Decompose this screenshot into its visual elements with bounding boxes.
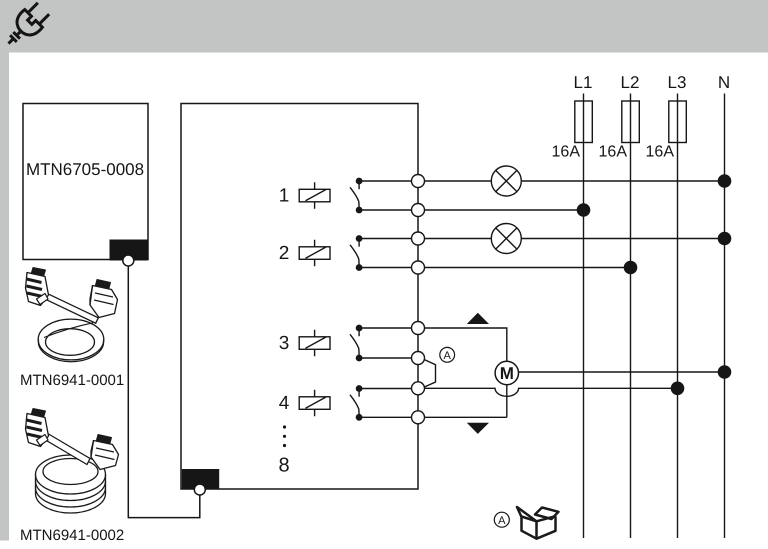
cable2 left connector — [26, 409, 49, 447]
wire contact3 top to terminal — [360, 327, 419, 329]
motor M — [495, 361, 518, 384]
wire contact2 top to terminal — [360, 238, 419, 240]
svg-text:8: 8 — [278, 455, 289, 477]
down arrow (blind down) — [467, 423, 489, 434]
cable1 left connector — [26, 268, 49, 306]
lamp E1 — [491, 166, 521, 196]
wire contact4 top to terminal — [360, 388, 419, 390]
power supply box MTN6705-0008 — [23, 104, 148, 260]
fuse F2 — [622, 101, 640, 143]
svg-text:L2: L2 — [621, 73, 640, 92]
wire contact3 bottom to terminal — [360, 357, 419, 359]
switch contact S4 — [350, 386, 362, 420]
wire motor to N — [519, 371, 725, 373]
fuse F3 — [669, 101, 687, 143]
cable MTN6941-0002 coil — [36, 455, 106, 513]
wire terminal7 to L3 with hop — [418, 388, 678, 396]
junction dot row2-L1 — [577, 203, 591, 217]
wire motor top from terminal5 — [418, 328, 507, 361]
ellipsis channels 5..7 — [283, 425, 286, 447]
wire contact1 bottom to terminal — [360, 209, 419, 211]
junction dot row3-N — [718, 232, 732, 246]
terminal node t7 — [412, 382, 425, 395]
junction dot motor-L3 — [671, 382, 685, 396]
junction dot motor-N — [718, 365, 732, 379]
carton icon — [517, 507, 559, 539]
wire row2 to L1 — [418, 209, 584, 211]
cable2 cord segment — [43, 433, 90, 465]
svg-text:MTN6941-0002: MTN6941-0002 — [20, 527, 124, 544]
svg-text:16A: 16A — [552, 144, 581, 161]
svg-text:L1: L1 — [574, 73, 593, 92]
terminal node t1 — [412, 175, 425, 188]
left grey margin strip — [0, 53, 9, 541]
wire motor bottom lead — [506, 385, 508, 418]
svg-text:M: M — [500, 364, 514, 383]
wire row1 to N — [418, 180, 725, 182]
svg-text:16A: 16A — [599, 144, 628, 161]
connector block on power supply — [110, 240, 149, 261]
wire contact4 bottom to terminal — [360, 416, 419, 418]
wire motor bottom from terminal8 — [418, 416, 507, 418]
relay coil K4 — [299, 390, 330, 417]
cable2 right connector — [91, 435, 119, 470]
svg-text:L3: L3 — [668, 73, 687, 92]
line L2 — [630, 94, 632, 539]
terminal node t5 — [412, 322, 425, 335]
svg-text:MTN6705-0008: MTN6705-0008 — [26, 160, 144, 179]
terminal node t3 — [412, 232, 425, 245]
line L3 — [677, 94, 679, 539]
junction dot row1-N — [718, 174, 732, 188]
terminal node t2 — [412, 204, 425, 217]
relay coil K2 — [299, 240, 330, 266]
svg-text:N: N — [718, 73, 730, 92]
svg-text:4: 4 — [279, 393, 290, 414]
line L1 — [583, 94, 585, 539]
wire row3 to N — [418, 238, 725, 240]
svg-text:A: A — [498, 515, 506, 527]
cable1 cord segment — [43, 293, 98, 323]
svg-text:3: 3 — [279, 333, 290, 354]
svg-text:16A: 16A — [646, 144, 675, 161]
svg-text:MTN6941-0001: MTN6941-0001 — [20, 372, 124, 389]
terminal node t6 — [412, 352, 425, 365]
fuse F1 — [575, 101, 593, 143]
connector block on actuator — [182, 469, 219, 489]
switch contact S3 — [350, 325, 362, 360]
actuator box — [181, 104, 418, 490]
wire contact2 bottom to terminal — [360, 267, 419, 269]
junction dot row4-L2 — [624, 261, 638, 275]
relay coil K3 — [299, 330, 330, 357]
lamp E2 — [491, 224, 521, 254]
cable1 right connector — [90, 280, 118, 318]
cable MTN6941-0001 coil — [38, 319, 104, 362]
up arrow (blind up) — [467, 313, 489, 324]
wire contact1 top to terminal — [360, 180, 419, 182]
line N — [724, 94, 726, 539]
switch contact S2 — [350, 236, 362, 270]
svg-text:1: 1 — [279, 186, 290, 207]
bracket joining terminals 6 and 7 — [423, 359, 436, 388]
port node on power supply connector — [123, 255, 134, 266]
switch contact S1 — [350, 178, 362, 212]
label A (circled) at carton — [494, 512, 509, 527]
wire from power supply to actuator — [128, 263, 200, 518]
plug icon (header) — [1, 1, 52, 52]
relay coil K1 — [299, 182, 330, 209]
label A (circled) at bracket — [440, 347, 455, 362]
svg-text:A: A — [444, 350, 452, 362]
terminal node t8 — [412, 411, 425, 424]
cable1 cord crossing inside coil — [44, 323, 93, 338]
svg-text:2: 2 — [279, 243, 290, 264]
wire row4 to L2 — [418, 267, 631, 269]
terminal node t4 — [412, 261, 425, 274]
port node on actuator connector — [194, 484, 205, 495]
header grey band — [0, 0, 768, 53]
